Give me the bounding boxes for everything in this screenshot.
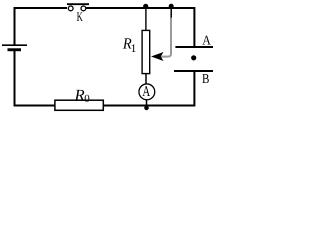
- svg-text:B: B: [202, 71, 209, 86]
- svg-text:A: A: [142, 84, 150, 100]
- svg-text:K: K: [77, 9, 83, 24]
- svg-text:A: A: [202, 32, 211, 47]
- svg-text:0: 0: [84, 93, 90, 105]
- svg-text:1: 1: [131, 43, 137, 55]
